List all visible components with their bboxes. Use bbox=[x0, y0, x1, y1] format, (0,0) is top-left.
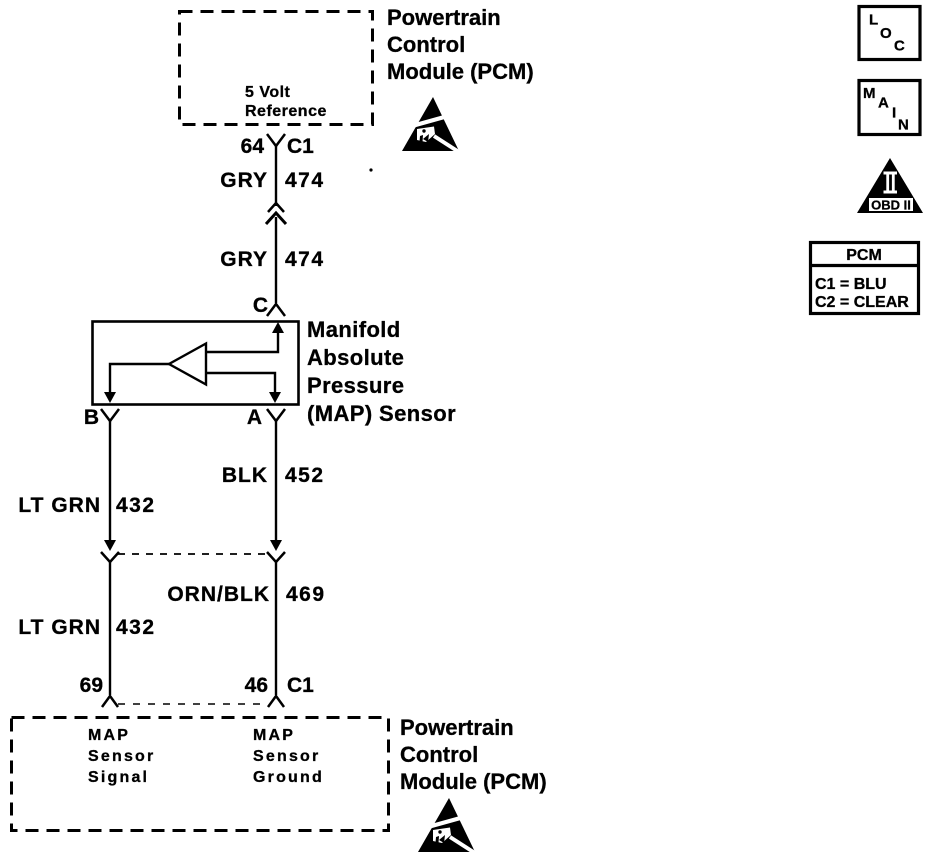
label LT GRN 432 (lower) bbox=[18, 616, 155, 639]
svg-text:BLK: BLK bbox=[222, 464, 268, 487]
svg-text:469: 469 bbox=[286, 583, 326, 606]
wire: triangle to A pin (down arrow at bottom edge) bbox=[206, 373, 281, 403]
svg-text:Reference: Reference bbox=[245, 103, 327, 120]
label GRY 474 (lower) bbox=[220, 248, 324, 271]
wire: C input into triangle (with up arrow at top edge) bbox=[206, 322, 284, 352]
svg-text:C2 = CLEAR: C2 = CLEAR bbox=[815, 294, 909, 311]
svg-text:I: I bbox=[892, 105, 896, 122]
label: Manifold Absolute Pressure (MAP) Sensor bbox=[307, 317, 456, 426]
svg-text:Ground: Ground bbox=[253, 769, 324, 786]
svg-text:Manifold: Manifold bbox=[307, 317, 401, 342]
pin 46 C1 labels bbox=[245, 674, 315, 697]
inline connector chevrons (pointing up) bbox=[266, 203, 286, 224]
svg-text:Module (PCM): Module (PCM) bbox=[387, 59, 534, 84]
label: MAP Sensor Signal bbox=[88, 727, 155, 786]
connector fork at pin A bbox=[267, 409, 285, 421]
svg-text:64: 64 bbox=[241, 135, 265, 158]
label LT GRN 432 (upper) bbox=[18, 494, 155, 517]
svg-text:474: 474 bbox=[285, 169, 325, 192]
svg-text:MAP: MAP bbox=[88, 727, 130, 744]
label: MAP Sensor Ground bbox=[253, 727, 324, 786]
inline connector: down arrow + fork, right wire bbox=[267, 540, 285, 562]
wire: triangle output to B pin (down arrow at bottom edge) bbox=[104, 364, 169, 403]
label ORN/BLK 469 bbox=[167, 583, 325, 606]
svg-text:A: A bbox=[247, 406, 262, 429]
svg-text:C1: C1 bbox=[287, 674, 314, 697]
svg-text:Sensor: Sensor bbox=[88, 748, 155, 765]
svg-text:474: 474 bbox=[285, 248, 325, 271]
svg-text:Control: Control bbox=[387, 32, 465, 57]
connector fork at pin C (opens down) bbox=[267, 304, 285, 316]
svg-text:GRY: GRY bbox=[220, 248, 268, 271]
svg-text:GRY: GRY bbox=[220, 169, 268, 192]
svg-text:5 Volt: 5 Volt bbox=[245, 84, 291, 101]
label: Powertrain Control Module (PCM) top bbox=[387, 5, 534, 84]
wire BLK 452 (A) bbox=[275, 421, 277, 541]
connector fork at pin 46 (opens down) bbox=[268, 696, 284, 707]
svg-text:452: 452 bbox=[285, 464, 325, 487]
svg-text:C1: C1 bbox=[287, 135, 314, 158]
connector fork at pin 69 (opens down) bbox=[102, 696, 118, 707]
svg-text:Absolute: Absolute bbox=[307, 345, 404, 370]
ESD sensitive device symbol (top) bbox=[402, 97, 462, 154]
svg-text:L: L bbox=[869, 12, 878, 29]
svg-text:B: B bbox=[84, 406, 99, 429]
MAP sensor box bbox=[93, 322, 299, 405]
LOC legend box bbox=[859, 7, 920, 60]
wire ORN/BLK 469 (to 46) bbox=[275, 562, 277, 695]
svg-text:69: 69 bbox=[80, 674, 103, 697]
wire LT GRN 432 upper (B) bbox=[109, 421, 111, 541]
label GRY 474 (upper) bbox=[220, 169, 324, 192]
svg-text:Sensor: Sensor bbox=[253, 748, 320, 765]
svg-text:Control: Control bbox=[400, 742, 478, 767]
wire GRY 474 upper segment bbox=[275, 146, 277, 206]
svg-text:Powertrain: Powertrain bbox=[387, 5, 501, 30]
svg-text:C: C bbox=[253, 294, 268, 317]
label BLK 452 bbox=[222, 464, 325, 487]
connector face thin dashed line (bottom) bbox=[118, 703, 268, 705]
connector face dashed line bbox=[118, 553, 268, 555]
wire LT GRN 432 lower (to 69) bbox=[109, 562, 111, 695]
svg-text:432: 432 bbox=[116, 616, 156, 639]
ESD sensitive device symbol (bottom) bbox=[418, 798, 478, 855]
label: Powertrain Control Module (PCM) bottom bbox=[400, 715, 547, 794]
svg-text:A: A bbox=[878, 95, 889, 112]
svg-text:PCM: PCM bbox=[846, 247, 882, 264]
svg-text:ORN/BLK: ORN/BLK bbox=[167, 583, 270, 606]
label: 5 Volt Reference bbox=[245, 84, 327, 120]
svg-text:C1 = BLU: C1 = BLU bbox=[815, 276, 887, 293]
svg-text:Pressure: Pressure bbox=[307, 373, 404, 398]
PCM bottom box (dashed) bbox=[12, 718, 389, 831]
svg-text:Signal: Signal bbox=[88, 769, 149, 786]
PCM connector legend table bbox=[811, 243, 919, 314]
connector fork at pin 64 bbox=[267, 134, 285, 146]
svg-text:Powertrain: Powertrain bbox=[400, 715, 514, 740]
svg-text:LT GRN: LT GRN bbox=[18, 494, 101, 517]
svg-text:M: M bbox=[863, 85, 876, 102]
svg-text:Module (PCM): Module (PCM) bbox=[400, 769, 547, 794]
svg-text:C: C bbox=[894, 38, 905, 55]
svg-text:46: 46 bbox=[245, 674, 268, 697]
svg-text:OBD II: OBD II bbox=[871, 198, 911, 213]
wire GRY 474 lower segment bbox=[275, 217, 277, 303]
pin 64 C1 labels bbox=[241, 135, 315, 158]
stray dot bbox=[369, 168, 372, 171]
OBD II triangle symbol bbox=[857, 158, 923, 213]
op-amp style triangle inside MAP sensor bbox=[169, 344, 206, 385]
svg-text:432: 432 bbox=[116, 494, 156, 517]
connector fork at pin B bbox=[101, 409, 119, 421]
svg-text:(MAP) Sensor: (MAP) Sensor bbox=[307, 401, 456, 426]
inline connector: down arrow + fork, left wire bbox=[101, 540, 119, 562]
svg-text:LT GRN: LT GRN bbox=[18, 616, 101, 639]
svg-text:O: O bbox=[880, 25, 892, 42]
svg-text:MAP: MAP bbox=[253, 727, 295, 744]
svg-text:N: N bbox=[898, 117, 909, 134]
MAIN legend box bbox=[859, 81, 920, 135]
PCM top box (dashed) bbox=[180, 12, 373, 125]
